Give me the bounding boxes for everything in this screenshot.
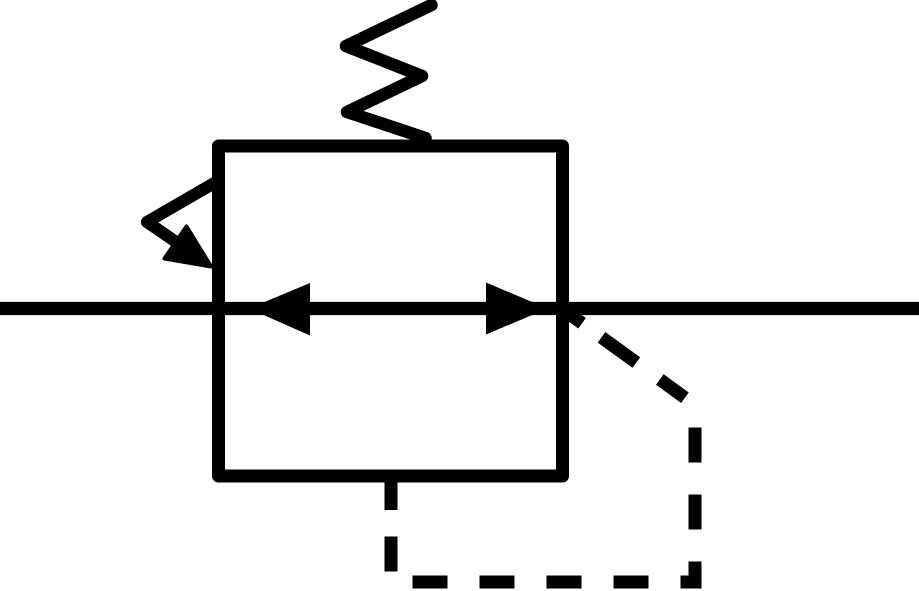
wire: solid stub from valve bottom port [385, 472, 398, 510]
pilot line (dashed): diagonal leg from downstream port [561, 308, 695, 405]
spring (pressure setting) [346, 5, 432, 138]
valve body envelope [219, 146, 563, 476]
relief vent arrow [147, 182, 216, 267]
wire: main flow line (left port to right port) [0, 302, 919, 315]
flow path arrow: right arrowhead [486, 283, 548, 335]
flow path arrow: left arrowhead [249, 283, 310, 336]
pilot line (dashed): down, along bottom, and up to valve bottom stub [391, 405, 695, 582]
